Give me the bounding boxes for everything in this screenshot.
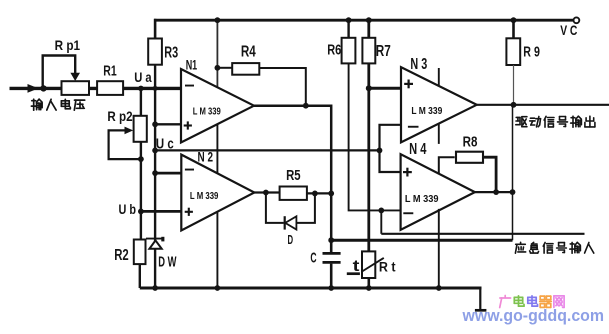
svg-text:R t: R t: [379, 259, 396, 274]
junction Uc right: [377, 148, 383, 154]
wire Rp2 to R2: [140, 142, 142, 240]
plus N2: [185, 208, 193, 216]
wire N1 output: [254, 106, 331, 241]
label DW: [158, 255, 176, 271]
wire N2 minus: [155, 172, 181, 175]
op-amp N4: [401, 154, 475, 230]
stub N3 top pin: [438, 68, 440, 86]
label R2: [114, 247, 129, 264]
thermistor Rt box: [362, 251, 375, 278]
junction rail R7: [366, 17, 372, 23]
label node Uc: [156, 137, 174, 153]
wire D loop right: [296, 193, 315, 223]
ground bar: [475, 309, 487, 312]
label R5: [286, 167, 301, 184]
op-amp N3: [401, 67, 477, 142]
wire emergency input line: [381, 233, 584, 235]
wire output link bottom: [331, 239, 512, 242]
input arrow: [28, 84, 39, 93]
wire N4 output: [475, 191, 513, 193]
arrow Rp2 wiper: [125, 127, 134, 135]
wire R5 right: [307, 192, 331, 194]
ground stub: [479, 288, 481, 309]
label R7: [376, 43, 391, 60]
label N1 LM339: [193, 105, 221, 117]
resistor R1: [97, 81, 123, 95]
wire supply x217 a: [216, 20, 218, 87]
junction N1out-C: [328, 237, 334, 243]
svg-text:R8: R8: [463, 133, 478, 150]
arrow Rp1 wiper: [70, 73, 80, 81]
op-amp N1: [181, 69, 254, 143]
wire R7 down: [367, 63, 370, 251]
resistor R2: [134, 240, 146, 265]
label N2: [198, 150, 214, 165]
wire Rp1 loop: [43, 56, 75, 89]
wire R9 top: [512, 20, 515, 38]
wire R8 gnd line: [438, 209, 440, 288]
zener DW wing: [161, 237, 164, 242]
wire R9 bottom thin: [513, 65, 515, 105]
wire Uc horizontal: [155, 149, 379, 151]
label R3: [164, 45, 178, 62]
wire N2 plus input: [141, 210, 181, 213]
junction Uc left: [152, 148, 158, 154]
label R4: [241, 43, 256, 60]
svg-text:www.go-gddq.com: www.go-gddq.com: [462, 307, 604, 325]
svg-text:L M 339: L M 339: [411, 106, 442, 117]
label R6: [327, 42, 341, 58]
resistor R8: [456, 152, 483, 163]
potentiometer Rp2: [134, 116, 147, 142]
wire ground rail: [140, 287, 482, 290]
wire DW vertical: [154, 173, 156, 288]
minus N3: [408, 126, 419, 128]
svg-text:L M 339: L M 339: [193, 105, 221, 117]
wire N1 plus: [155, 123, 181, 125]
wire R2 to ground: [139, 264, 141, 288]
label Rp2: [107, 108, 132, 124]
junction R4-N1out: [303, 103, 309, 109]
junction Rp1 left: [40, 85, 46, 91]
junction C gnd: [328, 285, 334, 291]
label N4: [409, 141, 427, 158]
resistor R6: [342, 38, 356, 64]
zener DW bar: [146, 238, 163, 240]
junction Rp2 bottom: [138, 156, 144, 162]
svg-text:N 4: N 4: [409, 141, 427, 158]
diode D triangle: [285, 216, 296, 229]
label N4 LM339: [405, 194, 439, 205]
label N1: [186, 58, 198, 74]
label C: [310, 250, 316, 266]
label N3 LM339: [411, 106, 442, 117]
capacitor C plate1: [323, 252, 341, 255]
junction Ub: [138, 209, 144, 215]
wire N3 minus path: [380, 125, 402, 172]
junction R8line gnd: [436, 285, 442, 291]
wire R7 top: [367, 20, 370, 38]
svg-text:N1: N1: [186, 58, 198, 74]
svg-text:t: t: [353, 258, 360, 275]
minus N1: [185, 85, 194, 87]
svg-text:R4: R4: [241, 43, 256, 60]
svg-text:R 9: R 9: [523, 43, 540, 60]
svg-text:R p2: R p2: [107, 108, 132, 124]
watermark site name: [500, 296, 564, 308]
minus N2: [185, 169, 194, 171]
svg-text:U b: U b: [119, 202, 137, 218]
resistor R9: [506, 38, 520, 65]
svg-text:R p1: R p1: [55, 37, 81, 53]
junction x217 gnd: [215, 285, 221, 291]
wire emergency drop: [380, 210, 382, 233]
junction D left: [263, 190, 269, 196]
junction Rt gnd: [366, 285, 372, 291]
junction R5-D right: [312, 191, 318, 197]
wire R4 right: [259, 68, 306, 106]
wire N3 output: [477, 104, 609, 106]
zener DW triangle: [149, 240, 161, 248]
svg-text:R6: R6: [327, 42, 341, 58]
wire R6 down: [349, 63, 401, 210]
svg-text:L M 339: L M 339: [405, 194, 439, 205]
watermark url: [462, 307, 604, 325]
wire R8 right: [483, 157, 496, 192]
junction N4minus: [378, 208, 384, 214]
svg-text:D W: D W: [158, 255, 176, 271]
wire output link vertical: [512, 105, 514, 240]
wire N3 plus input: [369, 87, 401, 90]
label t: [353, 258, 360, 275]
svg-text:U a: U a: [134, 70, 151, 86]
svg-text:U c: U c: [156, 137, 174, 153]
wire VC top rail: [154, 19, 574, 22]
svg-text:N 3: N 3: [410, 56, 427, 73]
label Rt: [379, 259, 396, 274]
junction Ua: [153, 86, 158, 91]
capacitor C plate2: [323, 261, 341, 264]
label drive output 驱动信号输出: [516, 116, 595, 127]
label Rp1: [55, 37, 81, 53]
resistor R7: [362, 38, 375, 64]
diode D bar: [284, 216, 286, 229]
junction rail R9: [511, 17, 517, 23]
stub N3 bottom pin: [438, 124, 440, 144]
power terminal VC: [574, 17, 580, 23]
wire Rt bottom: [367, 278, 370, 288]
label N3: [410, 56, 427, 73]
svg-text:L M 339: L M 339: [190, 191, 219, 202]
svg-text:D: D: [288, 232, 294, 247]
resistor R5: [280, 187, 307, 200]
wire N2 output: [254, 191, 279, 193]
junction R5-N1out: [328, 191, 334, 197]
wire Uc vertical: [154, 65, 156, 173]
wire C top: [330, 240, 333, 252]
plus N1: [184, 121, 192, 129]
plus N3: [404, 80, 413, 89]
op-amp N2: [181, 155, 254, 231]
label VC: [560, 23, 577, 39]
junction R4 branch: [215, 65, 221, 71]
label R8: [463, 133, 478, 150]
svg-text:R1: R1: [103, 63, 116, 79]
wire R6 top: [347, 20, 349, 38]
label node Ua: [134, 70, 151, 86]
label node Ub: [119, 202, 137, 218]
svg-text:R3: R3: [164, 45, 178, 62]
wire C bottom: [330, 264, 333, 288]
thermistor Rt diagonal: [362, 258, 384, 272]
junction Uc-N2minus: [152, 170, 158, 176]
wire R3 top: [154, 19, 157, 39]
wire D loop left: [266, 193, 284, 223]
wire R8 left: [439, 157, 455, 174]
svg-text:R5: R5: [286, 167, 301, 184]
wire supply x217 b: [216, 124, 218, 173]
plus N4: [403, 168, 412, 177]
wire Rp2 wiper loop: [109, 130, 141, 159]
resistor R4: [232, 63, 259, 75]
label D: [288, 232, 294, 247]
label N2 LM339: [190, 191, 219, 202]
svg-text:V C: V C: [560, 23, 577, 39]
resistor R3: [148, 39, 162, 65]
minus N4: [403, 212, 413, 214]
label R1: [103, 63, 116, 79]
svg-text:R7: R7: [376, 43, 391, 60]
junction R7-N3plus: [366, 85, 372, 91]
wire input line Ua: [10, 87, 182, 90]
label input voltage 输入电压: [31, 99, 84, 110]
junction N4out link: [510, 189, 516, 195]
wire supply x217 c: [216, 212, 218, 288]
svg-text:C: C: [310, 250, 316, 266]
label emergency 应急信号输入: [515, 242, 593, 253]
wire R4 left: [217, 67, 232, 69]
wire Rp2 drop: [140, 88, 142, 115]
thermistor Rt foot: [347, 272, 360, 275]
junction main-Rp2: [138, 86, 144, 92]
junction DW gnd: [152, 285, 158, 291]
svg-text:R2: R2: [114, 247, 129, 264]
svg-text:N 2: N 2: [198, 150, 214, 165]
potentiometer Rp1: [62, 81, 90, 95]
junction Uc-N1plus: [152, 121, 158, 127]
junction R8-N4out: [493, 189, 499, 195]
junction rail R6: [346, 17, 352, 23]
junction rail x217: [215, 17, 221, 23]
junction R9-N3out: [511, 102, 517, 108]
label R9: [523, 43, 540, 60]
